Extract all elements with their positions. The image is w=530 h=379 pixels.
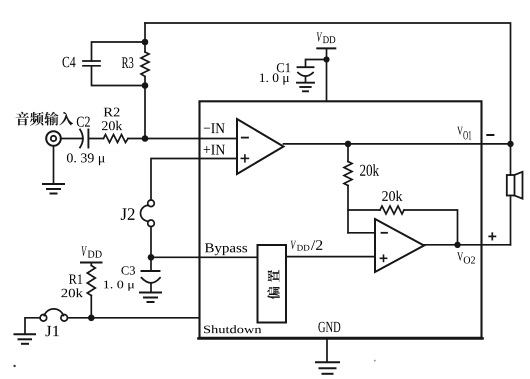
wire R3 to input node [144, 77, 146, 139]
wire VDD/2 to +IN U2 [286, 256, 375, 258]
node VDD C1 [323, 56, 329, 62]
label plus U2 [380, 255, 386, 261]
label C4 [63, 57, 76, 67]
label speaker minus [487, 134, 493, 136]
bias block box [258, 245, 287, 323]
label bias block (Chinese) [267, 270, 280, 300]
label GND pin [318, 322, 340, 332]
wire C3 to ground [150, 283, 152, 292]
wire feedback tap down [347, 144, 349, 162]
label Shutdown pin [204, 325, 261, 333]
label J1 [46, 326, 60, 336]
node VO2 [454, 242, 460, 248]
label audio input (Chinese) [16, 112, 29, 126]
wire U1 output VO1 [284, 143, 511, 145]
label VDD R1 [82, 246, 87, 256]
label R1 value 20k [61, 288, 83, 297]
wire C1 branch [306, 60, 327, 68]
label C3 value [104, 281, 134, 291]
label VDD top [317, 32, 322, 41]
wire +IN to J2 [151, 159, 237, 201]
power VDD C1 [317, 48, 335, 101]
wire C2 to R2 [88, 138, 103, 140]
label VO2 [457, 252, 463, 261]
capacitor C1 [298, 67, 314, 76]
resistor R1 [87, 266, 95, 296]
node R3 C4 top [142, 39, 149, 46]
wire U2 output VO2 [424, 244, 511, 246]
capacitor C3 [142, 271, 161, 283]
wire R3 branch top [144, 23, 146, 52]
wire J1 to shutdown pin [68, 317, 200, 319]
IC bottom edge [199, 337, 483, 340]
node R3 C4 bottom [142, 82, 149, 89]
label minus U1 [242, 137, 248, 139]
speck artifact right [374, 360, 376, 362]
label VDD/2 [291, 241, 296, 249]
wire Bypass [151, 256, 258, 258]
resistor 20k vertical [344, 162, 352, 186]
wire C1 to ground [305, 77, 307, 83]
ground J1 [15, 334, 36, 344]
label R2 [104, 108, 120, 117]
speaker [507, 172, 523, 199]
wire R1 to shutdown node [90, 296, 92, 318]
label minus IN pin [204, 123, 225, 133]
ground C1 [297, 83, 314, 92]
ground jack [43, 184, 64, 194]
node VO1 [507, 141, 513, 147]
node feedback tap [345, 141, 352, 148]
wire VO1 down to speaker [510, 144, 512, 175]
label 20k vertical [360, 164, 379, 176]
label J2 [121, 208, 135, 220]
label C1 value [260, 73, 289, 84]
wire bypass node to C3 [150, 257, 152, 271]
label speaker plus [489, 233, 495, 239]
switch J2 [141, 200, 155, 227]
switch J1 [40, 309, 67, 321]
wire J1 to ground [25, 318, 40, 334]
ground GND pin [316, 338, 339, 373]
IC outline box U1 [200, 101, 482, 337]
label R1 [69, 274, 82, 283]
wire feedback to VO2 [404, 210, 458, 245]
wire jack ground stem [53, 146, 55, 184]
speck artifact left [13, 365, 15, 367]
resistor R2 [104, 135, 129, 143]
wire J2 to bypass node [150, 227, 152, 258]
wire C4 bottom branch [92, 66, 146, 86]
wire feedback left [348, 209, 380, 211]
resistor 20k feedback [380, 206, 404, 214]
node bypass junction [148, 254, 155, 261]
connector audio input jack [46, 131, 61, 146]
label Bypass pin [205, 243, 247, 255]
wire 20k to -IN U2 [347, 186, 349, 233]
label C2 [77, 117, 90, 127]
label 20k feedback [382, 191, 402, 201]
ground C3 [140, 293, 161, 303]
label plus IN pin [204, 145, 225, 155]
resistor R3 [141, 52, 149, 77]
wire R2 to -IN [128, 138, 237, 140]
wire VO2 up to speaker [510, 196, 512, 245]
capacitor C4 [83, 61, 100, 66]
wire -IN U2 [348, 232, 375, 234]
label C1 [277, 63, 290, 72]
wire jack to C2 [61, 138, 83, 140]
label plus U1 [241, 155, 248, 162]
node shutdown junction [88, 315, 95, 322]
label R2 value 20k [102, 121, 122, 130]
node input junction [142, 135, 149, 142]
label minus U2 [382, 232, 388, 234]
capacitor C2 [80, 130, 88, 148]
wire top rail [145, 23, 511, 144]
label VO1 [457, 127, 463, 135]
label C3 [121, 266, 135, 274]
label R3 [122, 57, 134, 68]
label C2 value [67, 153, 105, 165]
power VDD R1 [81, 263, 102, 266]
op-amp U2 [375, 219, 424, 272]
wire C4 top branch [92, 42, 146, 61]
op-amp U1 [237, 119, 284, 174]
